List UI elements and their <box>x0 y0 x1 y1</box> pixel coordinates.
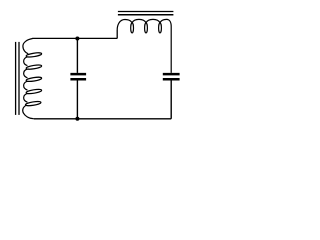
inductor L1 connector arc 4 <box>24 93 28 102</box>
inductor L1 exit curve <box>23 105 34 119</box>
inductor L1 turn ellipse 1 <box>26 52 42 58</box>
inductor L2 (top right coil) humps <box>117 19 171 73</box>
inductor L2 loop 3 <box>159 23 162 33</box>
inductor L1 connector arc 1 <box>24 57 28 66</box>
inductor L1 connector arc 2 <box>24 69 28 78</box>
core of L2 (two horizontal bars) <box>118 12 173 15</box>
inductor L1 turn ellipse 2 <box>26 64 42 70</box>
wire (riser to L2) <box>116 30 118 39</box>
wire (top horizontal) <box>32 37 117 39</box>
inductor L1 turn ellipse 4 <box>26 89 42 95</box>
capacitor C1 bottom lead wire <box>76 80 78 119</box>
wire (bottom horizontal) <box>34 118 172 120</box>
inductor L2 loop 1 <box>131 23 134 33</box>
inductor L1 turn ellipse 5 <box>25 101 41 107</box>
junction node (bottom) <box>75 117 79 121</box>
transformer core (left, two vertical bars) <box>16 42 19 115</box>
capacitor C2 bottom lead wire <box>170 80 172 118</box>
capacitor C2 plates <box>163 73 180 76</box>
inductor L1 turn ellipse 3 <box>26 76 42 82</box>
inductor L1 connector arc 3 <box>24 81 28 90</box>
inductor L2 loop 2 <box>145 23 148 33</box>
inductor L1 (left vertical coil) entry curve <box>23 39 33 54</box>
capacitor C1 plates <box>70 73 86 76</box>
capacitor C1 top lead wire <box>76 39 78 73</box>
junction node (top) <box>75 37 79 41</box>
